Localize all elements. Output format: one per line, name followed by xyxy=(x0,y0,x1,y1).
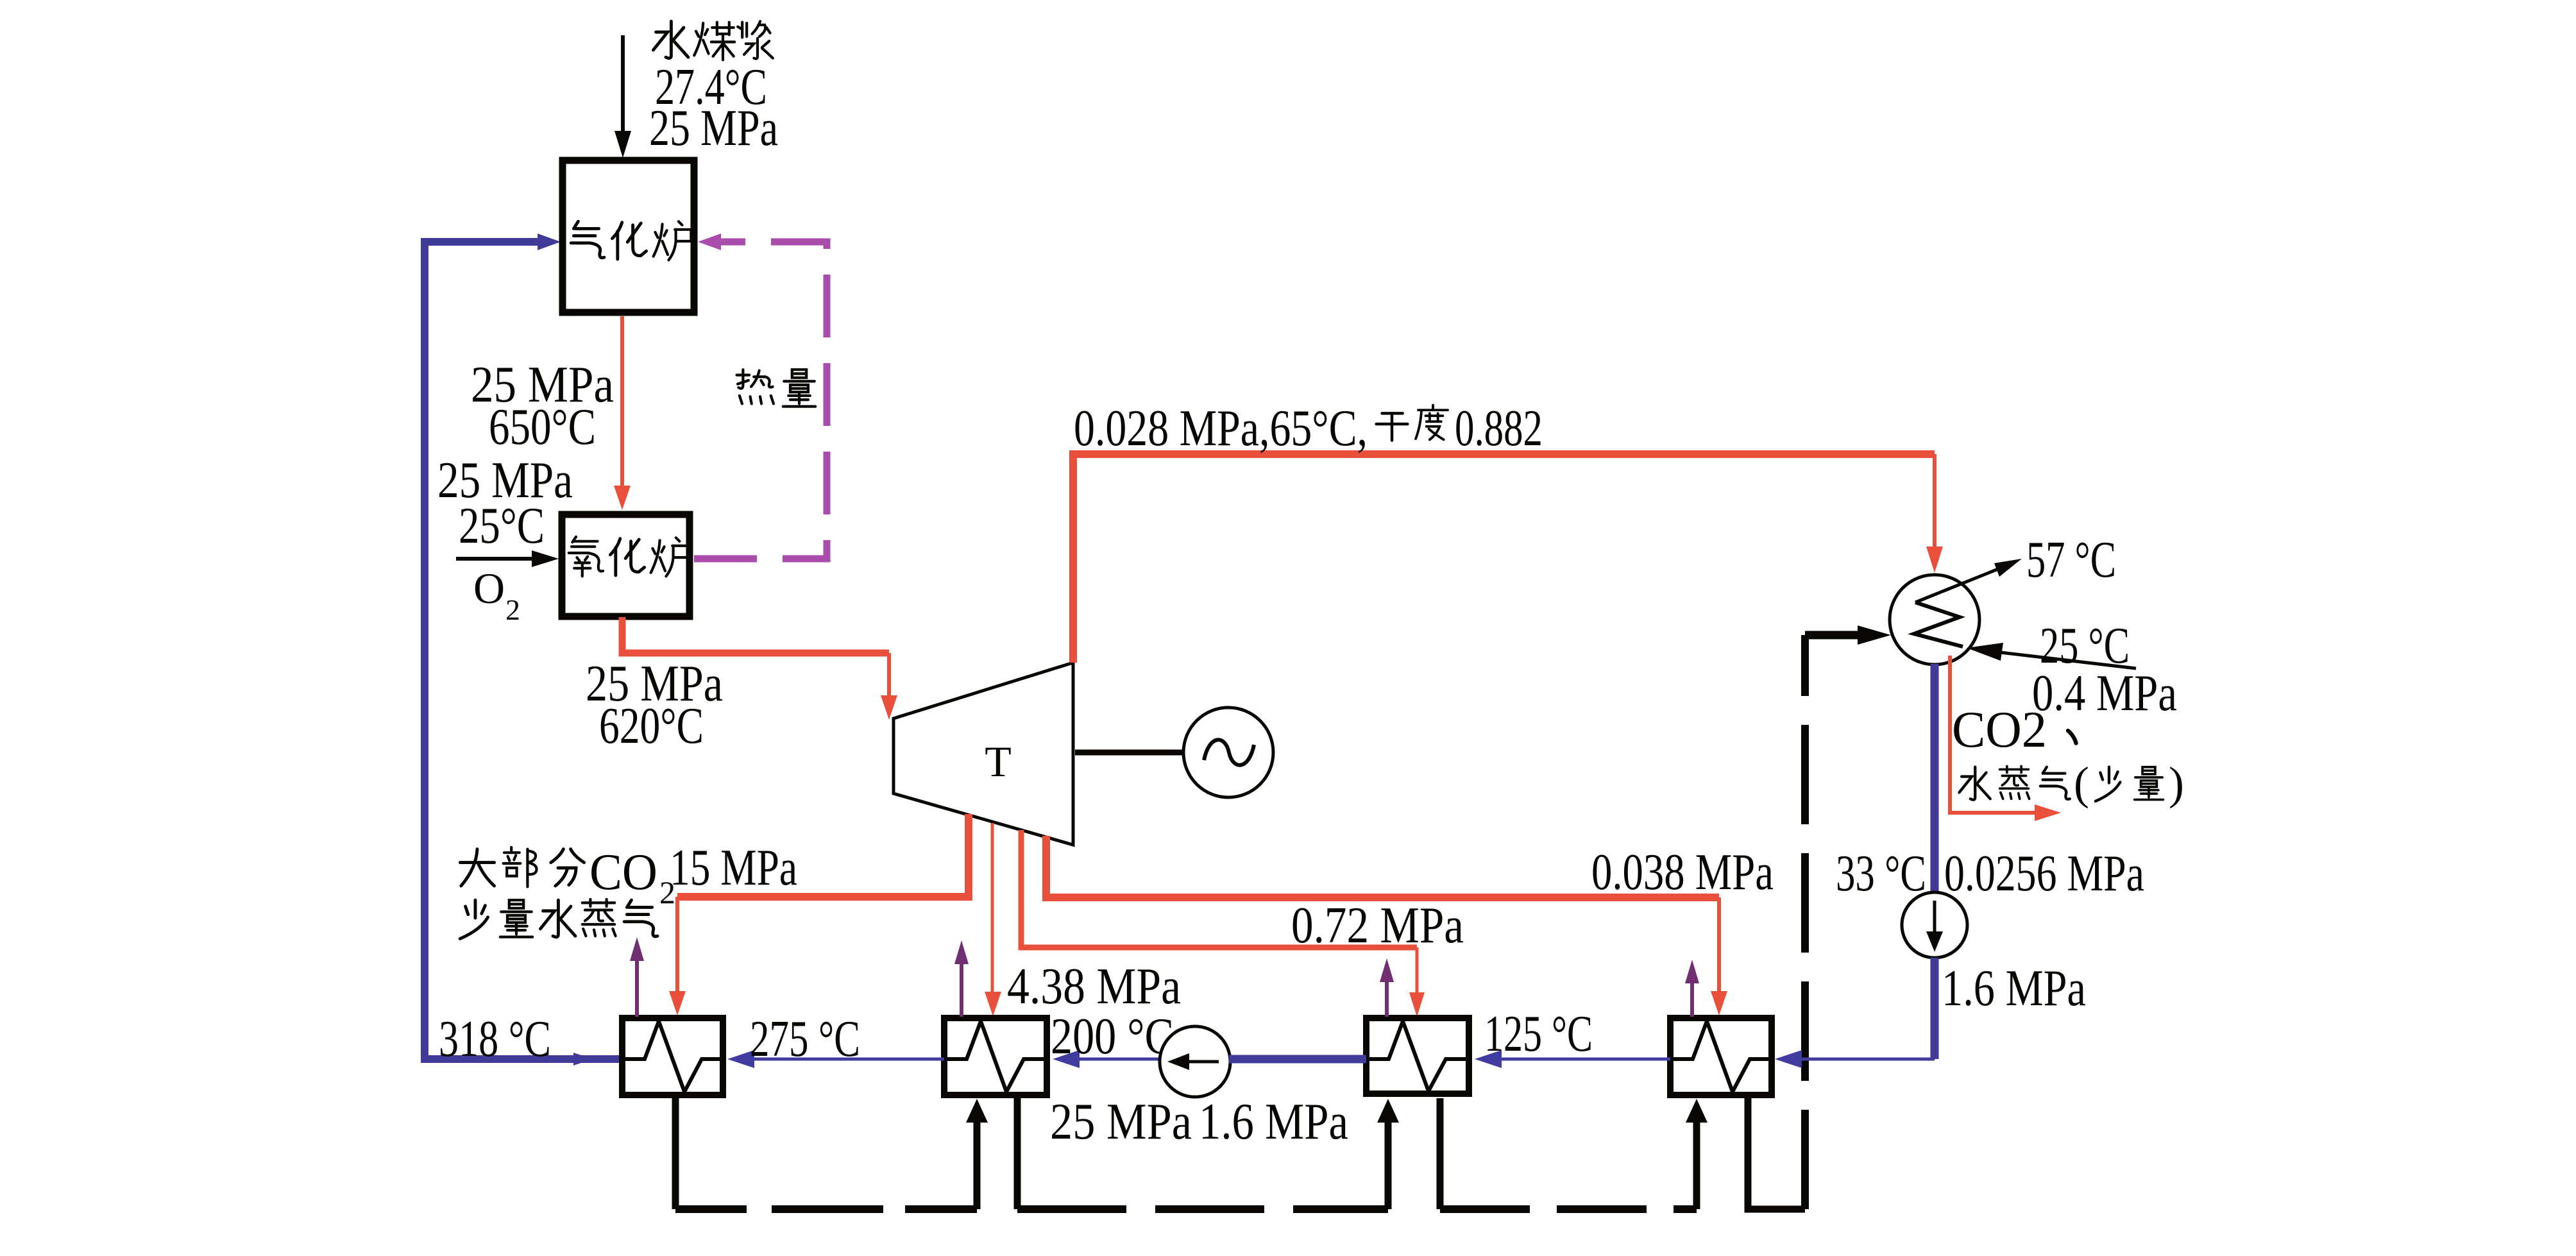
black dashed drain heater1 to heater2 xyxy=(675,1205,977,1213)
condenser zigzag xyxy=(1914,602,1963,647)
generator sine symbol xyxy=(1204,740,1254,765)
svg-text:275 °C: 275 °C xyxy=(750,1011,860,1067)
svg-text:CO: CO xyxy=(589,844,657,901)
svg-text:15 MPa: 15 MPa xyxy=(670,840,797,896)
pump2 arrow xyxy=(1926,901,1943,952)
svg-text:25 MPa: 25 MPa xyxy=(649,100,778,157)
black dashed drain heater2 to heater3 xyxy=(1017,1205,1388,1213)
wire: black coal-water slurry inlet arrow into gasifier top xyxy=(614,35,631,158)
heater3 zigzag xyxy=(1366,1021,1466,1091)
svg-text:650°C: 650°C xyxy=(489,399,596,455)
wire: blue pump2 down to heater4 (1.6 MPa) xyxy=(1775,958,1935,1068)
black arrow into condenser xyxy=(1805,625,1891,645)
svg-text:4.38 MPa: 4.38 MPa xyxy=(1007,958,1181,1015)
label 0.028 MPa,65C,干度0.882 xyxy=(1074,400,1543,457)
heater1 zigzag xyxy=(622,1021,720,1092)
svg-text:): ) xyxy=(2169,758,2184,809)
wire: red gasifier to oxidizer xyxy=(614,316,631,510)
wire: blue thin heater4 to heater3 (125 C) xyxy=(1475,1050,1670,1068)
heater4 zigzag xyxy=(1670,1021,1768,1092)
label 少量水蒸气 xyxy=(460,899,657,939)
svg-text:(: ( xyxy=(2074,758,2089,809)
wire: blue recycle 318C from heater1 left, up and into gasifier xyxy=(425,233,622,1065)
black dashed drain heater3 to heater4 xyxy=(1440,1205,1697,1213)
label 气化炉 xyxy=(571,221,691,260)
heater1 box xyxy=(622,1018,723,1095)
black drain leg heater2 xyxy=(1014,1098,1021,1209)
black drain riser into heater2 xyxy=(966,1099,988,1209)
svg-text:O: O xyxy=(473,564,505,613)
svg-text:1.6 MPa: 1.6 MPa xyxy=(1942,960,2086,1017)
black drain riser into heater4 xyxy=(1686,1099,1707,1209)
wire: red extraction 1 (15 MPa) to heater1 xyxy=(669,814,969,1015)
svg-text:0.882: 0.882 xyxy=(1455,400,1543,457)
small blue joint arrow on 318C line xyxy=(573,1053,593,1065)
heater4 box xyxy=(1670,1018,1772,1095)
shaft turbine-generator xyxy=(1075,750,1183,756)
wire: blue thin pump1 to heater2 (200 C) xyxy=(1053,1050,1160,1068)
wire: blue thin heater2 to heater1 (275 C) xyxy=(727,1050,944,1068)
svg-text:33 °C: 33 °C xyxy=(1836,845,1926,902)
svg-text:T: T xyxy=(985,737,1012,786)
svg-text:CO2: CO2 xyxy=(1952,702,2047,758)
label 水蒸气(少量) xyxy=(1959,758,2184,809)
heater2 zigzag xyxy=(944,1021,1044,1092)
turbine T xyxy=(894,663,1073,845)
generator circle xyxy=(1183,708,1273,797)
svg-text:0.028 MPa,65°C,: 0.028 MPa,65°C, xyxy=(1074,400,1368,457)
label 氧化炉 xyxy=(569,537,689,577)
purple vent arrow heater3 xyxy=(1380,958,1394,1017)
black drain riser into heater3 xyxy=(1377,1099,1399,1209)
purple vent arrow heater4 xyxy=(1685,960,1699,1017)
label CO2、 xyxy=(1952,702,2076,758)
pump1 circle xyxy=(1160,1026,1230,1097)
wire: red extraction 2 (4.38 MPa) to heater2 xyxy=(985,823,1001,1016)
svg-text:1.6 MPa: 1.6 MPa xyxy=(1199,1094,1348,1150)
wire: red oxidizer outlet to turbine inlet xyxy=(622,617,897,720)
svg-text:620°C: 620°C xyxy=(599,698,704,754)
wire: red condenser vent CO2 out xyxy=(1950,656,2061,821)
wire: blue thick heater3 to pump1 xyxy=(1229,1055,1366,1064)
purple vent arrow heater2 xyxy=(954,940,969,1017)
svg-text:125 °C: 125 °C xyxy=(1484,1006,1593,1062)
svg-text:25 MPa: 25 MPa xyxy=(1050,1094,1192,1150)
label 大部分CO2 xyxy=(460,844,675,910)
heater3 box xyxy=(1366,1018,1469,1094)
heater2 box xyxy=(944,1018,1047,1095)
oxidizer box 氧化炉 xyxy=(562,514,690,616)
wire: red extraction 4 (0.038 MPa) to heater4 xyxy=(1046,836,1727,1015)
condenser circle xyxy=(1890,575,1979,665)
black arrow out 57 C xyxy=(1915,559,2022,602)
pump2 circle xyxy=(1902,892,1967,958)
black drain leg heater4 xyxy=(1748,1098,1805,1209)
black dashed condensate riser to condenser xyxy=(1801,635,1809,1209)
black drain leg heater3 xyxy=(1437,1098,1444,1209)
label 热量 xyxy=(737,369,816,406)
wire: red turbine exhaust 0.028 MPa to condenser xyxy=(1073,454,1943,663)
wire: purple dashed heat line 热量 xyxy=(694,233,827,559)
svg-text:0.0256 MPa: 0.0256 MPa xyxy=(1944,845,2144,902)
svg-text:2: 2 xyxy=(659,874,675,910)
wire: red extraction 3 (0.72 MPa) to heater3 xyxy=(1021,830,1425,1017)
svg-text:57 °C: 57 °C xyxy=(2026,532,2116,588)
label 水煤浆 xyxy=(653,21,772,60)
black drain leg heater1 xyxy=(672,1098,679,1209)
pump1 arrow xyxy=(1167,1053,1219,1070)
svg-text:0.038 MPa: 0.038 MPa xyxy=(1591,844,1774,901)
wire: black O2 inlet arrow into oxidizer xyxy=(456,550,559,567)
wire: blue condenser to pump2 xyxy=(1931,664,1939,894)
svg-text:25°C: 25°C xyxy=(459,498,545,554)
svg-text:318 °C: 318 °C xyxy=(439,1011,551,1067)
svg-text:0.4 MPa: 0.4 MPa xyxy=(2032,665,2177,722)
black arrow in 25 C xyxy=(1967,643,2136,668)
gasifier box 气化炉 xyxy=(563,160,694,312)
svg-text:200 °C: 200 °C xyxy=(1051,1008,1174,1065)
purple vent arrow heater1 xyxy=(630,937,644,1017)
svg-text:0.72 MPa: 0.72 MPa xyxy=(1291,897,1464,954)
svg-text:2: 2 xyxy=(505,593,520,626)
